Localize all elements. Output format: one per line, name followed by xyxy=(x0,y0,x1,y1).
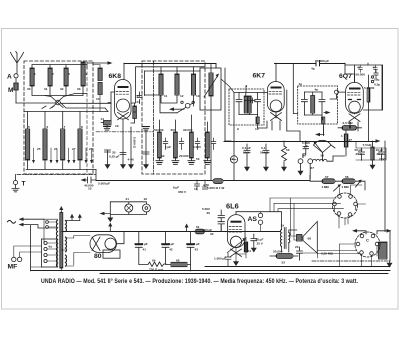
osc coil bottoms xyxy=(161,95,194,106)
switch diagonal 2 xyxy=(45,96,63,108)
dashed shield box RF coils xyxy=(24,61,93,174)
AVC bus xyxy=(224,141,377,143)
socket1 pin wires xyxy=(335,206,356,225)
svg-text:0,25 μF: 0,25 μF xyxy=(109,155,120,159)
pickup coil xyxy=(313,159,327,161)
svg-text:0,1: 0,1 xyxy=(261,146,266,150)
svg-text:4p: 4p xyxy=(299,82,303,86)
transformer core xyxy=(60,213,63,269)
AVC right vertical xyxy=(384,141,386,232)
bias cell box xyxy=(379,242,388,259)
80 heater xyxy=(92,237,100,251)
svg-text:20.000: 20.000 xyxy=(179,154,189,158)
resistor 7,5k xyxy=(371,147,374,160)
resistor 57 1M xyxy=(322,179,335,184)
terminal A xyxy=(14,74,18,78)
rail 2 xyxy=(136,67,205,103)
6Q7 grids xyxy=(348,92,361,95)
secondary coil L8 xyxy=(79,112,81,130)
6K8 heater xyxy=(118,112,129,120)
secondary coil L6 xyxy=(44,112,46,130)
svg-text:19: 19 xyxy=(115,124,119,128)
svg-text:13: 13 xyxy=(196,94,200,98)
socket2 pin wires xyxy=(340,244,378,266)
6K8 grids xyxy=(116,92,129,95)
AVC dash-dot line xyxy=(17,174,96,176)
pot 58 wiper xyxy=(356,182,361,188)
svg-text:5.000 pF: 5.000 pF xyxy=(317,59,329,63)
cathode cap 40uF xyxy=(251,234,257,249)
signal arrow into 6K8 xyxy=(87,62,109,64)
svg-text:17: 17 xyxy=(230,157,234,161)
bypass cap 51 xyxy=(137,92,145,104)
IF transformer 2 box xyxy=(298,86,338,124)
inner top line xyxy=(32,62,87,68)
bias cap 16 xyxy=(195,180,200,190)
grid wire xyxy=(213,224,227,232)
socket 6L6 pins view xyxy=(355,232,380,257)
coil bottom bus xyxy=(32,86,83,96)
6K8 cathode resistor xyxy=(122,119,124,165)
shield partition xyxy=(152,61,154,174)
svg-text:7,5 kΩ: 7,5 kΩ xyxy=(363,143,373,147)
HV secondary wires xyxy=(62,236,90,267)
svg-text:11: 11 xyxy=(164,94,168,98)
svg-text:30: 30 xyxy=(27,87,31,91)
svg-text:T: T xyxy=(22,181,26,188)
6Q7 anode lead xyxy=(345,63,355,82)
svg-text:21: 21 xyxy=(137,100,141,104)
svg-text:57: 57 xyxy=(325,175,329,179)
osc caps xyxy=(163,138,200,150)
6K7 anode bar xyxy=(272,87,281,89)
svg-text:6L6: 6L6 xyxy=(226,202,239,211)
svg-text:26: 26 xyxy=(54,147,58,151)
socket 6K8 pins view xyxy=(333,193,358,218)
pot 56 fan xyxy=(314,140,332,152)
field coil 68 xyxy=(171,262,187,266)
svg-text:41: 41 xyxy=(143,248,147,252)
tube 6L6 envelope xyxy=(227,215,245,248)
svg-text:50: 50 xyxy=(286,148,290,152)
svg-text:12: 12 xyxy=(180,94,184,98)
MF wires xyxy=(14,246,42,257)
svg-text:750 Ω pot.: 750 Ω pot. xyxy=(149,268,164,272)
svg-text:53: 53 xyxy=(282,261,286,265)
svg-text:4: 4 xyxy=(85,72,87,76)
svg-text:8: 8 xyxy=(81,125,83,129)
6K8 anode lead xyxy=(123,63,125,79)
oscillator dashed box xyxy=(142,61,205,174)
arrow above 80 xyxy=(109,226,111,232)
terminal F2 xyxy=(308,159,313,164)
80 cathode circle xyxy=(105,238,116,249)
svg-text:6K7: 6K7 xyxy=(253,73,266,80)
svg-text:16: 16 xyxy=(194,187,198,191)
voice coil xyxy=(297,235,303,242)
shield dashdot 6K8 xyxy=(96,131,153,133)
inline resistor 5000 1W xyxy=(213,179,223,184)
OT leads xyxy=(236,212,297,252)
pot cap 5000 xyxy=(303,141,309,155)
svg-text:0,1 μF: 0,1 μF xyxy=(242,146,251,150)
pilot lamp 1 xyxy=(125,204,133,212)
svg-text:7: 7 xyxy=(64,125,66,129)
svg-text:31: 31 xyxy=(133,110,137,114)
RF coil L2 xyxy=(48,68,52,86)
RF coil L3 xyxy=(64,68,68,86)
svg-text:19: 19 xyxy=(281,224,285,228)
svg-text:8 μF: 8 μF xyxy=(142,242,148,246)
tube 6K7 envelope xyxy=(267,82,284,113)
resistor 58 1M xyxy=(342,179,355,184)
svg-text:56: 56 xyxy=(321,154,325,158)
pot to wires xyxy=(323,145,336,161)
svg-text:8 μF: 8 μF xyxy=(194,242,200,246)
IF1 primary coil xyxy=(244,96,247,113)
secondary winding xyxy=(66,221,67,232)
6K8 anode bar xyxy=(119,86,128,88)
OT secondary xyxy=(289,233,290,243)
speaker wires xyxy=(291,198,318,258)
pot 57 wiper xyxy=(334,186,340,191)
HT bus xyxy=(62,231,281,233)
grid resistor 14 xyxy=(104,121,112,126)
socket1 left bundle xyxy=(270,198,348,228)
svg-text:25 V: 25 V xyxy=(257,242,264,246)
svg-text:a 50: a 50 xyxy=(203,183,209,187)
mains symbol xyxy=(8,220,16,223)
padder box xyxy=(200,68,221,110)
svg-text:5.000 pF: 5.000 pF xyxy=(98,182,110,186)
tube 6Q7 envelope xyxy=(346,82,364,113)
6Q7 leads down xyxy=(350,113,358,131)
svg-text:20: 20 xyxy=(295,245,299,249)
output transformer core xyxy=(284,228,286,249)
terminal AS1 xyxy=(258,213,262,217)
IF2 arrow xyxy=(324,112,328,114)
svg-text:51: 51 xyxy=(248,249,252,253)
lamp wires xyxy=(110,202,146,218)
svg-text:UNDA RADIO — Mod. 541 II° Seri: UNDA RADIO — Mod. 541 II° Serie e 543. —… xyxy=(41,278,358,285)
bottom bus 2 xyxy=(31,270,391,272)
arrow up right xyxy=(186,227,188,232)
terminal T xyxy=(13,180,17,184)
socket1 wires xyxy=(340,185,366,204)
MF terminals xyxy=(12,257,16,261)
primary winding xyxy=(56,220,57,267)
speaker cone xyxy=(303,222,317,254)
svg-text:pF: pF xyxy=(304,145,308,149)
band switch S1a xyxy=(56,100,61,105)
volume line xyxy=(287,131,300,141)
input caps 36 xyxy=(218,210,225,232)
ground bus xyxy=(96,180,310,182)
small caps right box xyxy=(374,70,378,79)
resistor 53 xyxy=(276,254,293,259)
cap 41 top xyxy=(359,65,363,72)
svg-text:3: 3 xyxy=(68,72,70,76)
electrolytic 41 xyxy=(135,232,142,265)
svg-text:50 kΩ: 50 kΩ xyxy=(260,151,269,155)
tube 6K8 envelope xyxy=(115,80,132,120)
svg-text:50.000: 50.000 xyxy=(273,250,283,254)
svg-text:8 μF: 8 μF xyxy=(173,186,179,190)
svg-text:5: 5 xyxy=(28,125,30,129)
svg-text:300: 300 xyxy=(171,128,176,132)
IF1 cap 1 xyxy=(236,93,242,115)
svg-text:47: 47 xyxy=(349,138,353,142)
svg-text:5.000 Ω: 5.000 Ω xyxy=(133,137,137,149)
wire to ground bus xyxy=(95,170,97,181)
svg-text:0,5μ: 0,5μ xyxy=(374,83,380,87)
svg-text:15: 15 xyxy=(88,187,92,191)
svg-text:6K8: 6K8 xyxy=(109,73,122,80)
6L6 grids xyxy=(229,227,242,233)
detector wires xyxy=(225,124,234,180)
wire antenna to band switch xyxy=(16,102,56,104)
IF1 cap 2 xyxy=(255,93,261,115)
IF2 cap left xyxy=(301,92,307,115)
bottom bus 1 xyxy=(205,266,390,268)
grid bus lower xyxy=(24,111,108,113)
decoupling dots xyxy=(371,76,373,78)
6L6 cathode arrow xyxy=(228,240,244,253)
det cap 1 xyxy=(244,144,250,168)
svg-text:9: 9 xyxy=(246,84,248,88)
det resistor zigzag xyxy=(282,141,287,168)
secondary coil L7 xyxy=(62,112,64,130)
right vertical xyxy=(383,65,390,261)
RF coil L1 xyxy=(30,68,34,86)
chassis arrow lamps xyxy=(103,213,110,215)
B+ top rail xyxy=(124,64,345,69)
osc resistor R3 xyxy=(190,132,194,158)
svg-text:27: 27 xyxy=(72,147,76,151)
svg-text:1.000 pF: 1.000 pF xyxy=(214,257,226,261)
variable arrow xyxy=(204,76,218,97)
grounds 6L6 xyxy=(233,248,257,266)
6Q7 diode plates xyxy=(349,99,361,101)
terminal F1 xyxy=(298,159,303,164)
osc coil 2 xyxy=(176,67,178,74)
socket2 arrows xyxy=(356,231,388,234)
svg-text:35: 35 xyxy=(112,151,116,155)
svg-text:33: 33 xyxy=(77,87,81,91)
6K7 grids xyxy=(269,91,282,94)
6Q7 cathode circle xyxy=(349,101,361,113)
ground T xyxy=(12,189,19,192)
ground F xyxy=(301,156,345,179)
svg-text:28: 28 xyxy=(89,147,93,151)
svg-text:5.000 Ω 1 W: 5.000 Ω 1 W xyxy=(207,186,224,190)
6L6 anode bar xyxy=(232,221,241,223)
6K7 leads down xyxy=(272,90,287,131)
right resistor box xyxy=(355,65,383,110)
svg-text:21: 21 xyxy=(126,197,130,201)
cathode parts 6L6 xyxy=(236,237,246,262)
svg-text:1 MΩ: 1 MΩ xyxy=(342,185,350,189)
IF2 coil xyxy=(311,96,315,114)
svg-text:52: 52 xyxy=(161,154,165,158)
mains arrows xyxy=(22,219,27,224)
cap 10uF xyxy=(379,148,385,160)
svg-text:50 V: 50 V xyxy=(243,151,250,155)
svg-text:1: 1 xyxy=(34,72,36,76)
svg-text:50.000: 50.000 xyxy=(356,73,366,77)
det cap 2 xyxy=(263,144,269,168)
svg-text:50: 50 xyxy=(196,157,200,161)
svg-text:68: 68 xyxy=(176,259,180,263)
ground lamps xyxy=(107,218,113,223)
upper primary taps xyxy=(46,221,49,224)
trimmer arrows xyxy=(34,148,92,160)
svg-text:31: 31 xyxy=(44,87,48,91)
electrolytic 42 xyxy=(162,232,169,265)
svg-text:51: 51 xyxy=(137,94,141,98)
tap box xyxy=(41,239,57,267)
switch contact row xyxy=(42,106,54,109)
svg-text:AS: AS xyxy=(248,216,258,223)
6Q7 grid cap terminal xyxy=(335,90,339,94)
series capacitor 5000pF xyxy=(316,61,320,66)
grounds under 6K8 xyxy=(108,127,147,165)
svg-text:0,5 MΩ: 0,5 MΩ xyxy=(343,121,354,125)
svg-text:4p: 4p xyxy=(315,88,319,92)
resistor 0,5M horizontal xyxy=(342,126,357,131)
6K7 cathode circle xyxy=(270,100,282,112)
padding caps xyxy=(105,150,150,155)
80 base box xyxy=(103,250,120,258)
IF transformer 1 box xyxy=(229,89,264,125)
rail 3 xyxy=(144,70,200,72)
bias parts xyxy=(203,180,208,189)
ground AV xyxy=(370,165,376,170)
electrolytic 43 xyxy=(187,232,194,265)
6L6 anode lead xyxy=(235,212,237,215)
wire gang down xyxy=(224,68,226,142)
ground right xyxy=(389,261,391,263)
svg-text:2: 2 xyxy=(52,72,54,76)
osc coil 1 xyxy=(160,67,162,74)
cap 40 top xyxy=(374,65,378,72)
osc grid resistor R1 xyxy=(158,132,162,158)
cap 20 xyxy=(297,247,303,260)
shield partition left xyxy=(86,61,88,174)
terminal AS2 xyxy=(258,220,262,224)
osc switch S1b xyxy=(185,103,190,108)
6K7 anode lead xyxy=(275,63,277,81)
pilot lamp 2 xyxy=(142,204,150,212)
tube labels xyxy=(8,73,353,271)
speaker to socket2 bundle xyxy=(317,251,359,254)
cap 50uF xyxy=(359,148,365,160)
svg-text:F: F xyxy=(302,153,306,160)
svg-text:6: 6 xyxy=(47,125,49,129)
IF1 wires xyxy=(234,86,267,124)
svg-text:25 V: 25 V xyxy=(377,152,384,156)
padder wires xyxy=(210,65,212,181)
feedback cap 1000pF xyxy=(225,253,231,266)
resistor 47 1k vertical xyxy=(344,134,348,147)
osc coil 3 xyxy=(193,67,195,74)
inline resistor 61 on HT bus xyxy=(195,229,205,234)
IF1 lower resistor xyxy=(256,117,259,124)
osc stems xyxy=(159,115,191,161)
dashdot bottom right xyxy=(312,260,390,262)
svg-text:14: 14 xyxy=(101,117,105,121)
svg-text:10: 10 xyxy=(255,127,259,131)
AVC cap arrow left xyxy=(84,177,96,183)
RF coil L4 xyxy=(81,62,85,86)
6L6 cathode circle xyxy=(230,236,241,247)
wire switch to grid xyxy=(60,103,111,112)
svg-text:MF: MF xyxy=(8,264,18,271)
svg-text:67: 67 xyxy=(311,166,315,170)
svg-text:19: 19 xyxy=(144,197,148,201)
IF2 lower resistor xyxy=(322,117,325,124)
svg-text:25 V: 25 V xyxy=(356,152,363,156)
svg-text:64: 64 xyxy=(152,259,156,263)
svg-text:30.000: 30.000 xyxy=(183,128,193,132)
padder coil xyxy=(209,73,213,96)
wires AV row xyxy=(356,142,386,161)
field coil 64 zigzag xyxy=(139,262,166,267)
svg-text:10μ: 10μ xyxy=(374,78,379,82)
svg-text:68: 68 xyxy=(308,237,312,241)
taps xyxy=(44,241,47,244)
coil bottoms to common bus xyxy=(26,160,96,170)
rect tube 80 envelope xyxy=(90,235,117,253)
svg-text:80: 80 xyxy=(94,253,102,260)
svg-text:40: 40 xyxy=(373,66,377,70)
6Q7 heater xyxy=(349,114,360,122)
svg-text:1 μF: 1 μF xyxy=(165,145,171,149)
bottom bus 3 xyxy=(100,273,388,275)
ground 52 (earth) xyxy=(143,127,150,131)
6K7 heater xyxy=(271,113,282,121)
detector junction xyxy=(230,156,237,163)
IF1 secondary coil xyxy=(248,96,251,113)
svg-text:350 V: 350 V xyxy=(178,190,187,194)
secondary coil L5 xyxy=(27,112,29,130)
svg-text:9: 9 xyxy=(237,127,239,131)
svg-text:1: 1 xyxy=(341,134,343,138)
ground 6K8 grid (earth) xyxy=(104,127,111,131)
IF2 cap right xyxy=(319,92,325,115)
svg-text:10: 10 xyxy=(96,97,100,101)
6K8 grid lead xyxy=(108,92,115,122)
cathode R 51 xyxy=(244,242,247,252)
labels left xyxy=(7,74,26,188)
mains wires xyxy=(27,219,44,271)
svg-text:58: 58 xyxy=(345,175,349,179)
svg-text:33: 33 xyxy=(210,232,214,236)
svg-text:50.000: 50.000 xyxy=(154,128,164,132)
grid line xyxy=(310,175,365,190)
svg-text:25: 25 xyxy=(37,147,41,151)
svg-text:43: 43 xyxy=(195,248,199,252)
svg-text:8 μF: 8 μF xyxy=(168,242,174,246)
svg-text:M: M xyxy=(8,87,13,94)
wire padder to IF1 xyxy=(221,79,234,93)
svg-text:1 MΩ: 1 MΩ xyxy=(322,185,330,189)
osc ground earths xyxy=(156,161,195,165)
transformer bottom wires xyxy=(31,267,62,271)
6Q7 anode bar xyxy=(350,88,360,90)
antenna xyxy=(11,52,24,74)
svg-text:4-46: 4-46 xyxy=(128,158,134,162)
